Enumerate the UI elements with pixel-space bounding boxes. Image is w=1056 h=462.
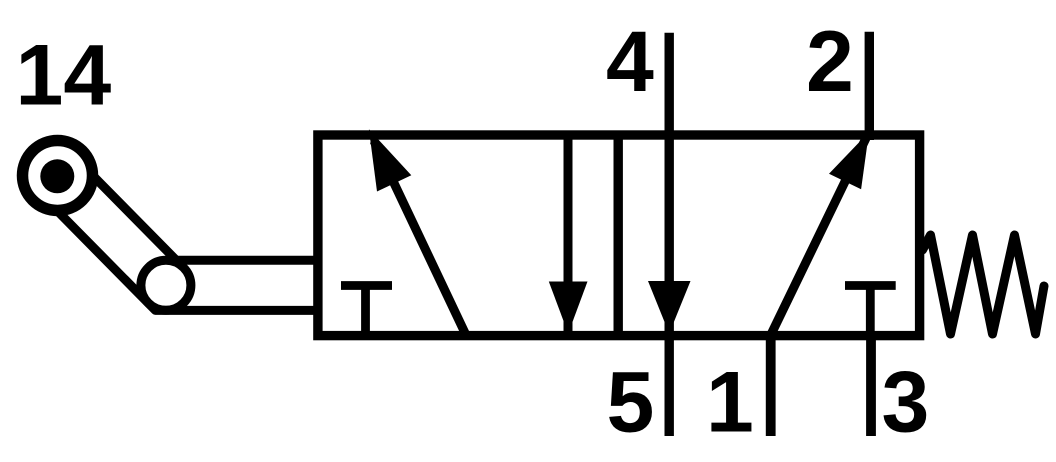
right blocked-port T symbol bar <box>845 281 896 290</box>
svg-text:2: 2 <box>806 14 854 110</box>
left chamber down arrowhead <box>549 282 588 334</box>
roller wheel circle <box>141 260 191 310</box>
return spring <box>923 235 1045 334</box>
chamber divider line <box>614 131 623 340</box>
left chamber diagonal flow arrow wire <box>374 141 466 334</box>
port 3 line <box>866 336 876 436</box>
left chamber vertical flow line <box>564 135 573 333</box>
port 1 line <box>766 336 776 436</box>
roller circle outer (idle-return roller) <box>23 141 93 211</box>
lever lower edge wire <box>57 211 322 311</box>
left chamber diagonal arrowhead <box>369 129 411 191</box>
right chamber diagonal flow arrow wire (1 to 2) <box>771 138 866 334</box>
roller pivot dot <box>40 159 74 193</box>
lever upper edge wire <box>93 175 323 260</box>
svg-text:1: 1 <box>706 355 754 451</box>
left blocked-port T symbol stem <box>361 286 370 337</box>
valve body rectangle <box>318 135 920 336</box>
port 4 / port 5 through line <box>665 33 674 436</box>
port 2 line <box>865 32 874 140</box>
left blocked-port T symbol bar <box>341 281 392 290</box>
port 4 to 5 down arrowhead <box>648 281 691 334</box>
right chamber diagonal arrowhead <box>829 132 869 189</box>
svg-text:4: 4 <box>606 14 654 110</box>
right blocked-port T symbol stem <box>866 286 875 337</box>
svg-text:5: 5 <box>607 355 655 451</box>
svg-text:3: 3 <box>882 355 930 451</box>
svg-text:14: 14 <box>16 28 112 124</box>
